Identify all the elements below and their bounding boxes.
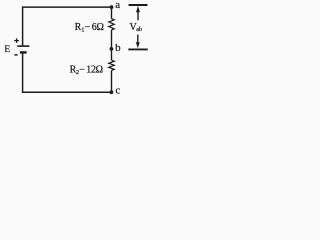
svg-text:−: −	[85, 22, 91, 33]
resistor R2 zigzag	[109, 60, 114, 70]
svg-text:a: a	[115, 0, 120, 11]
wire R2 to c	[111, 70, 113, 92]
svg-text:6Ω: 6Ω	[92, 22, 104, 33]
svg-text:E: E	[4, 45, 10, 55]
wire left upper	[22, 6, 24, 46]
resistor R1 zigzag	[109, 19, 114, 30]
Vab down arrowhead	[136, 42, 140, 48]
Vab meter bottom bar	[128, 48, 147, 50]
Vab up arrow shaft	[137, 11, 139, 21]
wire right a to R1	[111, 7, 113, 19]
Vab down arrow shaft	[137, 35, 139, 44]
svg-text:b: b	[115, 42, 121, 54]
svg-text:c: c	[115, 85, 120, 97]
svg-text:ab: ab	[136, 26, 142, 33]
node a dot	[110, 5, 114, 9]
wire left lower	[22, 52, 24, 93]
battery E bottom plate	[20, 51, 27, 53]
wire top	[23, 6, 112, 8]
wire bottom	[23, 91, 112, 93]
Vab up arrowhead	[136, 6, 140, 12]
node b dot	[110, 47, 114, 51]
node c dot	[110, 90, 114, 94]
Vab meter top bar	[129, 4, 148, 6]
wire R1 to b	[111, 30, 113, 60]
svg-text:12Ω: 12Ω	[86, 64, 102, 75]
minus sign of battery	[14, 54, 17, 56]
svg-text:−: −	[79, 64, 85, 75]
battery E top plate	[17, 45, 29, 47]
plus sign of battery	[14, 38, 19, 43]
